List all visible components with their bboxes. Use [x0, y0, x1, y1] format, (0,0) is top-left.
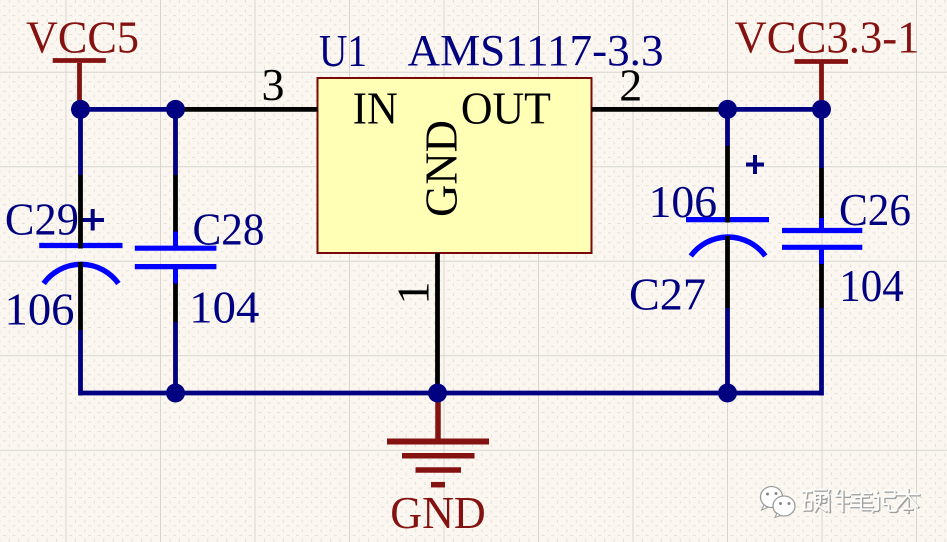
svg-text:GND: GND [390, 487, 486, 538]
svg-text:C28: C28 [193, 204, 265, 255]
svg-text:1: 1 [388, 282, 439, 305]
svg-text:106: 106 [5, 283, 75, 334]
svg-text:C27: C27 [629, 269, 706, 320]
svg-text:GND: GND [416, 120, 467, 217]
svg-text:OUT: OUT [461, 83, 551, 134]
svg-text:VCC5: VCC5 [26, 12, 139, 63]
svg-text:IN: IN [353, 83, 398, 134]
svg-text:3: 3 [262, 59, 285, 110]
svg-text:C26: C26 [839, 184, 911, 235]
svg-text:104: 104 [839, 260, 904, 311]
svg-text:2: 2 [619, 59, 642, 110]
svg-text:104: 104 [189, 282, 259, 333]
svg-text:106: 106 [649, 176, 718, 227]
svg-text:VCC3.3-1: VCC3.3-1 [735, 12, 920, 63]
svg-text:C29: C29 [5, 194, 79, 245]
svg-text:U1: U1 [319, 25, 367, 76]
